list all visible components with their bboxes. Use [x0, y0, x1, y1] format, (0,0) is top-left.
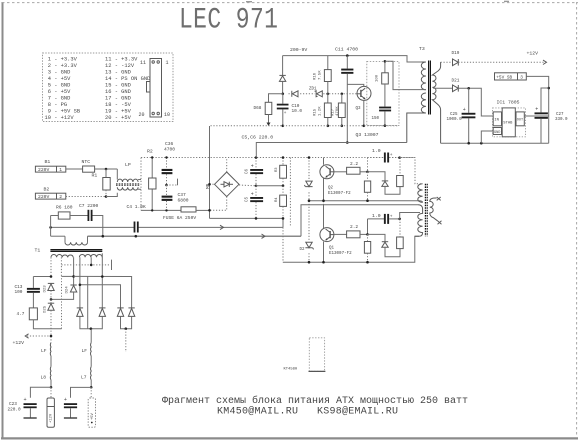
svg-text:100: 100 — [15, 290, 23, 295]
svg-text:C25: C25 — [450, 113, 458, 117]
svg-text:150: 150 — [372, 117, 380, 121]
resistor base-emitter lower — [364, 234, 370, 262]
zener Z2 (Q2 b-e) — [304, 180, 312, 190]
svg-text:20: 20 — [139, 112, 145, 118]
wire to C13 — [33, 276, 51, 278]
wire tap x=61.4 — [60, 257, 62, 276]
inductor L7 — [90, 367, 93, 380]
node junction — [282, 217, 285, 220]
node junction — [90, 327, 93, 330]
svg-text:T1: T1 — [35, 248, 41, 254]
node junction — [363, 125, 366, 128]
transformer T2 primary lower winding — [415, 205, 423, 236]
capacitor C37 — [162, 185, 173, 210]
resistor 4.7 — [29, 308, 37, 320]
svg-text:D19: D19 — [452, 51, 460, 56]
svg-text:LF: LF — [82, 348, 88, 354]
wire base feed dotted y=93.8 — [289, 93, 357, 95]
wire ground return up — [61, 276, 63, 328]
wire x=283 dotted down to inverter rail — [282, 227, 284, 262]
wire: standby emitter rail y=142.5 — [256, 143, 407, 158]
resistor R15 — [324, 94, 331, 126]
regulator IC1 7805 — [493, 108, 526, 137]
wire tap x=51 — [50, 257, 52, 276]
node junction — [547, 87, 550, 90]
node junction — [105, 168, 108, 171]
wire center tap — [422, 89, 426, 91]
node: lone component box — [309, 338, 326, 372]
zener ZD1 — [315, 91, 323, 97]
resistor R1 — [103, 169, 110, 197]
choke LP common-mode filter — [116, 169, 141, 190]
capacitor 150 — [379, 107, 391, 126]
svg-text:R3: R3 — [275, 167, 279, 172]
capacitor C7 — [88, 210, 93, 221]
capacitor C36 — [162, 158, 173, 186]
wire Q2 collector — [323, 158, 325, 165]
wire: dashed enclosure left edge — [140, 158, 142, 211]
resistor R3 — [280, 158, 287, 186]
node junction — [308, 156, 311, 159]
wire Q2 drive clamp — [368, 172, 386, 181]
wire left standby branch — [282, 56, 284, 76]
svg-text:2.2: 2.2 — [350, 224, 358, 230]
wire GND pin — [481, 131, 493, 143]
terminal B1 220V-1 — [35, 166, 65, 173]
svg-text:D2: D2 — [300, 248, 306, 252]
svg-text:+: + — [64, 397, 67, 403]
node junction — [480, 142, 483, 145]
wire: right page border (dashed) — [576, 2, 578, 438]
svg-text:L7: L7 — [81, 375, 87, 381]
wire NTC to LP — [95, 168, 118, 170]
svg-text:+: + — [24, 397, 27, 403]
svg-text:D25: D25 — [44, 305, 48, 313]
wire: bottom page border — [1, 437, 578, 439]
svg-text:7.5K: 7.5K — [319, 70, 323, 80]
node junction — [322, 199, 325, 202]
ground bar — [64, 417, 77, 419]
wire snubber left vertical — [50, 216, 52, 237]
svg-text:C4 1.0K: C4 1.0K — [127, 204, 147, 210]
wire: bottom bus y=218.4 — [210, 217, 284, 219]
node junction — [101, 275, 104, 278]
capacitor C11 — [341, 56, 353, 143]
resistor R17 label (vertical) — [332, 106, 340, 116]
node junction — [398, 156, 401, 159]
node junction — [90, 264, 93, 267]
svg-text:3: 3 — [520, 75, 523, 80]
wire thin rail y=284.8 — [80, 285, 121, 308]
node junction — [366, 199, 369, 202]
inductor LF channel 1 — [49, 343, 52, 356]
node junction — [282, 93, 285, 96]
transformer T2 primary upper winding — [418, 184, 423, 203]
wire Q2 emitter — [323, 179, 325, 201]
svg-text:4700: 4700 — [164, 147, 175, 153]
svg-text:+12V: +12V — [527, 51, 539, 57]
svg-text:+: + — [251, 192, 254, 198]
node junction — [105, 195, 108, 198]
svg-text:+5V SB: +5V SB — [496, 75, 512, 80]
wire C7 right lead — [93, 216, 103, 237]
svg-text:Q1: Q1 — [329, 247, 335, 251]
svg-text:11: 11 — [140, 60, 146, 66]
wire bridge top — [226, 158, 228, 173]
wire Q1 collector — [323, 205, 325, 228]
node junction — [366, 233, 369, 236]
svg-text:D23: D23 — [44, 285, 48, 293]
transformer T3 primary winding lower — [407, 93, 426, 143]
svg-text:KM450@MAIL.RU KS98@EMAIL.RU: KM450@MAIL.RU KS98@EMAIL.RU — [217, 406, 398, 418]
svg-text:C36: C36 — [165, 141, 174, 147]
inductor LF channel 2 — [90, 343, 93, 356]
wire tap x=79.9 — [79, 257, 81, 307]
wire: center tap dotted line — [61, 264, 109, 266]
transformer T2 core — [425, 184, 427, 237]
svg-text:C27: C27 — [556, 113, 564, 117]
node junction — [102, 235, 105, 238]
transformer T1 core — [50, 250, 102, 252]
wire test tap — [167, 179, 178, 186]
svg-text:LF: LF — [41, 348, 47, 354]
svg-text:+5V: +5V — [91, 412, 95, 420]
svg-text:1.2K: 1.2K — [319, 106, 323, 116]
node arrow on wire — [262, 234, 266, 238]
diode clamp upper — [382, 181, 400, 194]
node junction — [72, 275, 75, 278]
node junction — [322, 261, 325, 264]
capacitor C22 — [64, 397, 77, 418]
diode D24 — [70, 285, 76, 292]
node junction — [255, 185, 258, 188]
node junction — [208, 209, 211, 212]
resistor R16 label (vertical) — [314, 70, 323, 80]
svg-text:100: 100 — [376, 74, 380, 82]
svg-text:LEC 971: LEC 971 — [179, 3, 278, 36]
wire: B+ rail y=55.6 — [283, 56, 422, 62]
node junction — [208, 183, 211, 186]
svg-text:R2: R2 — [147, 149, 153, 155]
node junction — [398, 218, 401, 221]
svg-text:IC1 7805: IC1 7805 — [497, 100, 520, 106]
node junction — [79, 284, 82, 287]
svg-text:NTC: NTC — [82, 159, 91, 165]
wire: dotted bottom bus y=125.8 — [211, 125, 400, 127]
svg-text:+: + — [463, 107, 466, 113]
wire: line B return rail y=236.2 — [51, 235, 301, 237]
node: dashed oscillator box — [367, 61, 399, 125]
node junctions on rails — [151, 156, 153, 158]
diode D28 (on x=120.5) — [117, 308, 123, 317]
svg-text:+12V: +12V — [49, 413, 53, 423]
capacitor C4 — [134, 222, 139, 233]
svg-text:1.0: 1.0 — [372, 213, 381, 219]
node junction — [282, 156, 285, 159]
svg-text:1000.0: 1000.0 — [447, 118, 463, 122]
node polarity mark x (top) — [437, 197, 441, 200]
wire OUT pin — [524, 115, 548, 117]
wire Q1 emitter — [323, 242, 325, 263]
svg-text:10.0: 10.0 — [292, 109, 303, 114]
resistor base-emitter upper — [364, 172, 370, 201]
transformer T1 primary winding — [65, 236, 88, 245]
node: scan artifact top right — [504, 0, 509, 2]
node junction — [384, 60, 387, 63]
wire Q3 emitter — [363, 100, 365, 125]
resistor R6 — [58, 212, 70, 219]
transformer T3 primary winding upper — [421, 62, 426, 90]
node polarity mark x (bottom) — [438, 221, 442, 224]
capacitor C5 — [250, 186, 263, 219]
capacitor 1.0 upper — [368, 153, 400, 163]
transistor Q3 — [357, 86, 371, 100]
svg-text:R6 180: R6 180 — [56, 205, 73, 211]
node junction — [341, 125, 344, 128]
node junction — [346, 141, 349, 144]
svg-text:LP: LP — [125, 162, 131, 168]
svg-text:GND: GND — [494, 131, 500, 135]
wire mid rail — [256, 185, 283, 187]
wire bridge bottom — [210, 197, 227, 211]
wire cap to base junction — [367, 158, 369, 172]
node: table border — [43, 53, 174, 122]
node junction — [49, 226, 52, 229]
wire join left diode pair — [80, 316, 102, 328]
svg-text:C11 4700: C11 4700 — [335, 47, 358, 53]
resistor drive lower-right — [397, 219, 404, 249]
svg-text:C5: C5 — [246, 196, 250, 202]
svg-text:Q3 13007: Q3 13007 — [356, 132, 379, 138]
diode D26 (on x=79.9) — [77, 308, 83, 317]
diode clamp lower — [382, 242, 400, 257]
capacitor C27 — [535, 88, 549, 143]
svg-text:220.0: 220.0 — [8, 408, 22, 413]
wire tap x=73.6 — [73, 257, 75, 284]
wire collector branch — [347, 84, 364, 87]
load resistor box +12V — [47, 387, 54, 427]
resistor R15 label (vertical) — [314, 106, 323, 116]
diode D23 — [48, 283, 54, 290]
node junction — [366, 261, 369, 264]
svg-text:+12V: +12V — [13, 340, 25, 346]
svg-text:E13007-F2: E13007-F2 — [329, 252, 352, 256]
wire +12V standby dashed with arrow — [458, 60, 546, 64]
svg-text:KT4580: KT4580 — [284, 368, 298, 372]
bridge rectifier MB — [215, 172, 240, 197]
wire +5VSB to output node — [526, 76, 548, 143]
capacitor C13 — [27, 277, 40, 308]
svg-text:E13007-F2: E13007-F2 — [328, 192, 351, 196]
capacitor C6 — [250, 158, 263, 186]
wire 4.7 to ground return — [33, 320, 61, 329]
inductor L8 — [49, 367, 52, 380]
wire R6 to C7 — [70, 215, 88, 217]
svg-text:Q3: Q3 — [356, 107, 362, 111]
transformer T1 secondary winding 2 — [79, 254, 102, 257]
resistor 2.2 upper — [334, 167, 368, 174]
diode D9 (pointing left) — [291, 91, 298, 97]
node junction — [308, 199, 311, 202]
node arrow on wire — [220, 225, 224, 229]
capacitor 1.0 lower — [368, 214, 400, 224]
load resistor box +5V (dashed) — [88, 387, 95, 427]
wire B2 to LP (dotted) — [66, 196, 106, 198]
wire — [50, 380, 52, 387]
svg-text:+: + — [251, 164, 254, 170]
wire bridge right — [239, 184, 256, 187]
wire x=51 column down — [50, 291, 52, 343]
resistor R4 — [280, 186, 287, 219]
wire: standby ground rail right — [441, 142, 549, 144]
transistor Q2 — [320, 165, 334, 179]
diode D29 (on x=131.6) — [128, 308, 134, 317]
svg-text:D24: D24 — [66, 286, 70, 294]
wire Q1 drive clamp — [368, 234, 386, 241]
wire bottom rail of filter box — [141, 209, 181, 211]
svg-text:1.0: 1.0 — [372, 148, 381, 154]
node junction — [467, 142, 470, 145]
svg-text:200-9V: 200-9V — [290, 47, 307, 53]
wire: line A emitter bus y=200.7 — [309, 200, 419, 202]
wire: left page border — [2, 2, 4, 439]
svg-text:IN: IN — [494, 119, 499, 123]
svg-text:Фрагмент схемы блока питания A: Фрагмент схемы блока питания ATX мощност… — [162, 394, 468, 407]
node: scan artifact top left — [246, 1, 252, 3]
thermistor NTC — [83, 166, 95, 172]
capacitor C23 — [24, 397, 37, 418]
resistor 2.2 lower — [334, 231, 368, 238]
resistor R16 — [324, 56, 331, 94]
wire dotted column x=309 — [308, 158, 310, 263]
svg-text:L8: L8 — [41, 375, 47, 381]
transformer T1 secondary winding 1 — [51, 254, 73, 257]
transformer T3 core — [429, 61, 431, 115]
node junction — [255, 217, 258, 220]
svg-text:220V: 220V — [38, 167, 49, 173]
wire line A into winding — [418, 201, 423, 203]
svg-text:+: + — [535, 107, 538, 113]
wire x=87.7 up — [87, 277, 89, 329]
resistor R17 — [338, 94, 345, 126]
wire — [282, 81, 284, 93]
wire negative rail stub — [125, 329, 127, 352]
wire cap left lead down to Q1 base node — [367, 219, 369, 235]
wire: long snubber line y=227.4 with C4 — [51, 226, 283, 228]
svg-text:D68: D68 — [254, 106, 262, 111]
wire D21 to regulator input — [458, 88, 493, 116]
wire cap to T2 upper drive — [400, 213, 420, 219]
diode D27 (on x=102.3) — [99, 308, 105, 317]
wire: top page border (dashed) — [2, 2, 578, 4]
node +12V arrow — [25, 334, 51, 338]
node junction — [255, 156, 258, 159]
svg-text:1: 1 — [166, 60, 169, 66]
svg-text:T3: T3 — [419, 46, 425, 52]
svg-text:C23: C23 — [9, 402, 17, 407]
node junction — [50, 298, 53, 301]
node junction — [346, 54, 349, 57]
wire — [90, 356, 92, 367]
diode D25 — [48, 303, 54, 310]
svg-text:6800: 6800 — [178, 198, 189, 204]
resistor R2 — [149, 158, 156, 211]
connector X1 symbol — [147, 59, 162, 118]
svg-text:220V: 220V — [38, 194, 49, 200]
wire feedback winding tap — [385, 61, 422, 89]
wire: corner up to snubber line — [282, 218, 284, 227]
wire secondary center tap — [433, 87, 452, 89]
svg-text:R15: R15 — [314, 108, 318, 116]
node junction — [165, 184, 168, 187]
node junction — [308, 261, 311, 264]
wire tap x=91.2 — [90, 257, 92, 265]
svg-text:FUSE 6A 250V: FUSE 6A 250V — [163, 215, 196, 221]
node junction — [282, 185, 285, 188]
diode D8 (vertical) — [279, 75, 285, 81]
wire tap x=102.3 — [101, 253, 103, 307]
wire fuse to bus — [196, 209, 210, 211]
svg-text:B2: B2 — [44, 187, 50, 193]
svg-text:C5,C6 220.0: C5,C6 220.0 — [242, 135, 274, 141]
node junction — [327, 125, 330, 128]
node +5V SB box — [495, 73, 527, 81]
svg-text:C7 2200: C7 2200 — [79, 203, 99, 209]
wire dotted column x=323.5 — [323, 158, 325, 263]
transformer T3 secondary winding — [432, 62, 440, 143]
wire — [90, 380, 92, 387]
wire D24 cathode return — [51, 292, 74, 299]
node junction — [341, 93, 344, 96]
node junction — [282, 125, 285, 128]
svg-text:330.0: 330.0 — [555, 118, 568, 122]
svg-text:D21: D21 — [452, 79, 460, 84]
svg-text:OUT: OUT — [517, 118, 523, 122]
diode D19 — [441, 59, 459, 66]
svg-text:2.2: 2.2 — [350, 161, 358, 167]
resistor drive upper-right — [397, 158, 404, 187]
node: center tap stub — [111, 260, 113, 270]
node junction — [384, 124, 387, 127]
terminal B2 220V-2 — [35, 193, 65, 200]
svg-text:4.7: 4.7 — [17, 312, 25, 317]
wire rail y=276.5 to x=131.6 — [74, 276, 132, 307]
svg-text:Q2: Q2 — [328, 187, 334, 191]
node junction — [50, 335, 53, 338]
node junction — [135, 235, 138, 238]
svg-text:STAB: STAB — [503, 122, 513, 126]
wire snubber row — [51, 215, 59, 217]
zener D2 — [305, 242, 313, 252]
ground bar — [24, 417, 37, 419]
wire: inverter bottom rail y=262.2 — [283, 236, 419, 262]
diode D21 — [453, 85, 459, 92]
capacitor C25 — [462, 88, 476, 143]
svg-text:C6: C6 — [246, 168, 250, 174]
node junction — [90, 386, 93, 389]
node junction — [50, 275, 53, 278]
transformer T2 secondary winding — [430, 198, 438, 221]
transistor Q1 — [320, 228, 334, 242]
svg-text:R16: R16 — [314, 72, 318, 80]
wire to LP bottom — [106, 193, 117, 197]
wire — [50, 356, 52, 367]
svg-text:+: + — [284, 111, 287, 116]
svg-text:2: 2 — [59, 194, 62, 200]
resistor 100 — [382, 61, 389, 106]
resistor D68 — [265, 94, 283, 126]
svg-text:10: 10 — [164, 112, 170, 118]
